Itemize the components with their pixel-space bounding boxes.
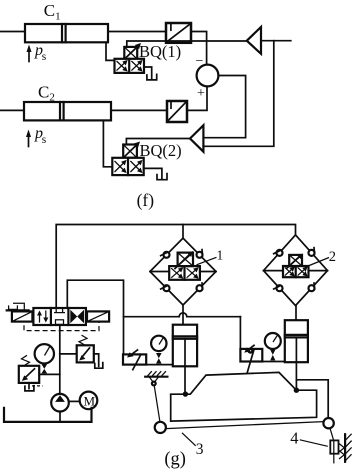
- servo valve BQ(1) torque motor: [122, 43, 142, 62]
- label 3: [182, 433, 196, 446]
- displacement sensor box 1: [166, 23, 191, 43]
- check valve D1 lower-left: [161, 285, 170, 291]
- label 4: [300, 440, 328, 447]
- svg-text:+: +: [197, 86, 205, 101]
- drain hook symbol above left solenoid: [7, 303, 29, 310]
- cylinder 2 (g): [285, 320, 308, 390]
- wire: cylinder C1 to BQ(1): [106, 42, 115, 60]
- wall with hatching: [339, 434, 352, 462]
- wire: amp1 output stub: [261, 40, 291, 42]
- svg-text:BQ(1): BQ(1): [139, 42, 181, 61]
- wire: rod2 to right roller: [296, 380, 328, 418]
- amplifier A2: [190, 125, 203, 151]
- relief valve right: [77, 335, 103, 368]
- svg-text:(g): (g): [164, 450, 186, 470]
- check valve D2 lower-right: [309, 283, 315, 291]
- junction dot rod1/beam: [183, 391, 188, 396]
- wire: amp1 line to BQ(1) input: [127, 41, 247, 47]
- roller left: [155, 422, 166, 433]
- tie line 3: [166, 422, 324, 429]
- servo valve BQ(1) body: [115, 59, 145, 73]
- cylinder C1: [25, 24, 108, 42]
- pressure gauge (pump line): [35, 344, 54, 373]
- pilot servo valve 2 torque motor: [287, 254, 303, 269]
- cylinder C2: [24, 102, 111, 120]
- pilot dashed line: [24, 322, 99, 331]
- wire: valve port loop to throttle feed: [67, 280, 123, 354]
- wire: diamond1 to cylinder1: [182, 305, 184, 325]
- bridge diamond 1: [150, 238, 216, 305]
- pilot servo valve 2 body: [283, 266, 309, 277]
- drain BQ(1): [144, 67, 157, 80]
- junction dot rod2/beam: [294, 388, 299, 393]
- cylinder 1 (g): [173, 325, 197, 394]
- throttle valve 1: [123, 350, 146, 370]
- check valve D1 upper-right: [197, 250, 203, 258]
- motor: [69, 392, 97, 410]
- wire: piston rod line of C2: [0, 109, 167, 111]
- wire: amp2 output to BQ(2): [126, 139, 190, 145]
- vent symbol left: [145, 371, 167, 422]
- svg-text:s: s: [42, 51, 47, 63]
- pressure gauge 1: [151, 336, 166, 364]
- wire: cross line with hop: [124, 313, 241, 317]
- stop block: [330, 440, 338, 453]
- wire: pump to tank: [59, 412, 61, 422]
- supply pressure arrow p_s (C2): [26, 125, 47, 147]
- svg-text:M: M: [84, 393, 96, 408]
- check valve D1 upper-left: [161, 252, 170, 258]
- wire: diamond2 to cylinder2: [295, 306, 297, 321]
- pump: [51, 394, 69, 412]
- solenoid left: [12, 311, 33, 321]
- displacement sensor box 2: [167, 101, 187, 122]
- drain BQ(2): [144, 168, 167, 179]
- wire: right throttle riser: [239, 317, 241, 349]
- pilot servo valve 1 torque motor: [175, 251, 193, 269]
- wire: summer output to amp2 first input: [203, 76, 245, 138]
- beam platform: [171, 372, 317, 421]
- directional control valve body: [33, 308, 86, 325]
- wire: supply top line: [56, 225, 295, 309]
- wire: sensor1 output to summing junction: [191, 32, 207, 65]
- pilot servo valve 1 body: [169, 266, 200, 280]
- wire: right relief branch: [60, 353, 77, 355]
- svg-text:3: 3: [196, 441, 204, 458]
- svg-text:BQ(2): BQ(2): [140, 141, 182, 160]
- svg-text:1: 1: [217, 248, 224, 263]
- pressure gauge 2: [265, 333, 281, 360]
- supply pressure arrow p_s (C1): [27, 42, 47, 63]
- wire: piston rod line of C1: [0, 31, 166, 33]
- support stem right: [330, 428, 334, 441]
- wire: throttle1 line to cylinder1: [123, 364, 173, 366]
- wire: throttle2 line to cylinder2: [240, 361, 284, 363]
- wire: riser to bridge 1: [182, 225, 184, 239]
- wire: left relief to main line: [39, 373, 60, 375]
- solenoid right: [87, 311, 109, 321]
- roller right: [323, 418, 333, 428]
- wire: diamond1 mid line: [150, 271, 216, 273]
- wire: pump pressure line: [59, 325, 61, 394]
- wire: cylinder C2 to BQ(2): [103, 120, 112, 166]
- servo valve BQ(2) body: [112, 158, 143, 175]
- check valve D1 lower-right: [197, 283, 203, 291]
- wire: sensor2 output to summer plus input: [187, 87, 207, 111]
- relief valve left: [19, 355, 43, 391]
- svg-text:(f): (f): [137, 190, 155, 210]
- bridge diamond 2: [264, 235, 328, 306]
- label 2: [306, 258, 330, 268]
- label 1: [197, 257, 217, 265]
- summing junction: [197, 65, 219, 87]
- check valve D2 lower-left: [274, 285, 283, 291]
- servo valve BQ(2) torque motor: [121, 142, 141, 161]
- check valve D2 upper-left: [274, 250, 283, 256]
- check valve D2 upper-right: [309, 248, 315, 256]
- wire: diamond2 mid line: [264, 270, 328, 272]
- tank: [4, 408, 92, 422]
- svg-text:4: 4: [290, 429, 298, 448]
- svg-text:2: 2: [329, 249, 336, 265]
- amplifier A1: [247, 27, 261, 54]
- wire: branch down to amp2 second input: [203, 41, 273, 147]
- svg-text:s: s: [42, 134, 47, 146]
- throttle valve 2: [240, 345, 262, 372]
